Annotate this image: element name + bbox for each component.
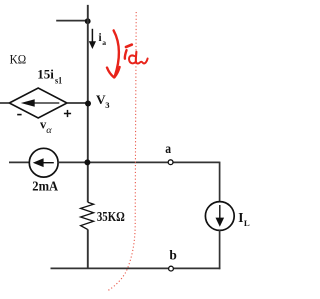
current source IL [205,202,234,231]
arrow inside 2mA source [33,158,54,167]
current source I1 2mA [29,148,58,177]
junction dot at V3-2mA row [84,159,90,165]
svg-text:L: L [244,218,250,228]
node V3 junction dot [85,101,91,107]
wire: 2mA source to node a and right corner [58,161,220,163]
wire: diamond to V3 node [67,102,89,104]
svg-text:a: a [165,142,171,157]
svg-text:b: b [169,248,176,263]
wire: top horizontal feed [56,20,88,22]
arrow inside dependent source [21,99,60,106]
wire: right branch upper [219,162,221,202]
node a open terminal [168,160,173,165]
wire: left stub to 2mA source [9,161,30,163]
node junction dot top [85,18,91,24]
red dotted cut line [108,12,136,291]
svg-text:a: a [102,38,106,47]
red annotation text ia [125,45,148,64]
svg-text:I: I [238,210,243,225]
wire: left stub to diamond [0,102,10,104]
current arrow ia [89,29,96,49]
svg-text:s1: s1 [55,76,63,86]
wire: right branch lower [219,230,221,269]
wire: bottom rail [51,267,221,269]
dependent source U1 (diamond 15is1) [9,88,67,118]
resistor R1 35K zigzag [81,202,94,229]
red annotation arrow [107,30,120,77]
polarity plus [64,110,71,117]
polarity minus [17,114,21,116]
wire: below resistor to bottom rail [87,229,89,269]
svg-text:15i: 15i [37,68,54,82]
svg-text:3: 3 [105,100,109,110]
svg-text:35ΚΩ: 35ΚΩ [97,210,125,225]
node b open terminal [169,266,174,271]
svg-text:2mA: 2mA [32,178,58,193]
svg-text:i: i [99,32,102,44]
svg-text:ΚΩ: ΚΩ [10,53,27,67]
svg-text:α: α [46,126,53,136]
arrow inside IL source [216,205,225,227]
wire: main vertical bus upper segment [87,5,89,202]
